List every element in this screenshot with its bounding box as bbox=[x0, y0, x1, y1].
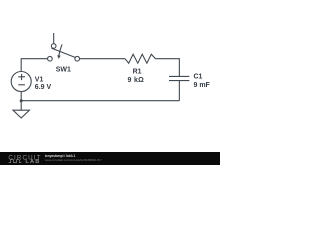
capacitor C1 bbox=[169, 76, 189, 80]
svg-text:C1: C1 bbox=[194, 74, 203, 81]
CircuitLab logo: square wave bbox=[9, 160, 22, 163]
wire capacitor bottom to bottom rail bbox=[178, 81, 180, 101]
wire V1 top to switch left terminal bbox=[21, 59, 47, 72]
svg-text:V1: V1 bbox=[35, 76, 44, 83]
svg-text:R1: R1 bbox=[133, 68, 142, 75]
svg-text:SW1: SW1 bbox=[56, 67, 71, 74]
labels bbox=[35, 67, 211, 91]
svg-text:9 kΩ: 9 kΩ bbox=[128, 77, 145, 84]
svg-text:LAB: LAB bbox=[25, 159, 40, 165]
wire V1 bottom stub bbox=[20, 92, 22, 101]
junction dot bbox=[20, 99, 23, 102]
wire switch right terminal to resistor bbox=[80, 58, 126, 60]
bottom black bar bbox=[0, 152, 220, 165]
svg-text:6.9 V: 6.9 V bbox=[35, 84, 52, 91]
wire resistor to capacitor top bbox=[156, 59, 180, 76]
svg-text:www.circuitlab.com/circuit/e51: www.circuitlab.com/circuit/e51c5b58826-7… bbox=[45, 158, 102, 162]
ground bbox=[13, 102, 29, 118]
svg-text:9 mF: 9 mF bbox=[194, 82, 211, 89]
resistor R1 bbox=[125, 54, 155, 63]
voltage source V1 bbox=[11, 72, 31, 92]
wire bottom rail bbox=[21, 100, 179, 102]
switch SW1 bbox=[48, 33, 80, 61]
